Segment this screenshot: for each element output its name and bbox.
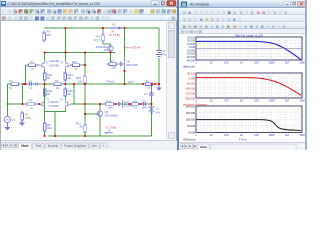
resistor R21	[129, 103, 141, 105]
plot 3 frame	[196, 106, 302, 133]
svg-text:1K: 1K	[240, 99, 243, 103]
junction (73,63)	[73, 83, 75, 85]
jfet T2	[39, 100, 44, 109]
wire R2	[21, 120, 23, 123]
svg-text:C5: C5	[142, 99, 146, 103]
svg-text:GD(v(out)): GD(v(out))	[183, 137, 196, 141]
jfet T1	[39, 61, 44, 70]
ac toolbar row4 mini icons	[181, 30, 184, 33]
ac tab nav buttons	[181, 144, 185, 149]
window left edge	[0, 0, 1, 150]
resistor R10	[70, 64, 82, 66]
mosfet V8 2SK1058	[121, 60, 125, 69]
resistor R7	[52, 83, 64, 85]
resistor R6	[44, 121, 46, 134]
resistor R23	[64, 71, 66, 83]
main toolbar rows	[0, 8, 177, 15]
ac title bar	[179, 0, 307, 8]
svg-text:50.000: 50.000	[187, 124, 195, 128]
ac page tab	[199, 144, 210, 149]
wire input	[7, 84, 39, 116]
svg-text:(5..10 B): (5..10 B)	[109, 33, 120, 37]
ac toolbar row1 icons	[181, 9, 185, 13]
svg-text:24V: 24V	[156, 110, 161, 114]
svg-text:100K: 100K	[25, 116, 31, 120]
svg-text:Q3: Q3	[104, 48, 108, 52]
junction (102,7)	[102, 27, 104, 29]
svg-text:100K: 100K	[269, 133, 275, 137]
svg-text:1K: 1K	[240, 61, 243, 65]
junction (21.5,83)	[22, 103, 24, 105]
svg-text:V3: V3	[112, 23, 116, 27]
svg-text:R21: R21	[133, 99, 139, 103]
ac toolbar row3 icons	[181, 23, 185, 27]
junction (43.6,115)	[44, 135, 46, 137]
resistor R2	[21, 111, 23, 123]
junction (84,63)	[84, 83, 86, 85]
plot 2 phase curve	[196, 78, 301, 96]
junction (24.5,63)	[25, 83, 27, 85]
ground R2	[19, 123, 25, 127]
schematic canvas	[1, 21, 166, 140]
battery +V top right	[156, 51, 162, 57]
wire mirror column	[64, 28, 66, 53]
plot area	[179, 34, 306, 142]
svg-text:100.000: 100.000	[186, 118, 196, 122]
svg-text:330: 330	[47, 126, 52, 130]
svg-text:Pout1: Pout1	[107, 80, 115, 84]
junction (84,115)	[84, 135, 86, 137]
resistor R20	[44, 71, 46, 83]
svg-text:V9: V9	[107, 129, 111, 133]
junction (23,63)	[23, 83, 25, 85]
svg-text:V1: V1	[12, 118, 16, 122]
junction (64.4,63)	[65, 83, 67, 85]
plot 2 grid	[196, 73, 302, 98]
main tab nav buttons	[2, 143, 6, 148]
svg-text:47: 47	[31, 67, 34, 71]
ground right	[158, 84, 160, 88]
svg-text:68: 68	[68, 76, 72, 80]
junction (128.5,83)	[129, 103, 131, 105]
svg-text:1M: 1M	[285, 61, 289, 65]
resistor R13	[84, 74, 86, 86]
svg-text:330: 330	[47, 33, 52, 37]
wire mid out bus	[7, 83, 159, 85]
svg-text:T4: T4	[60, 99, 63, 102]
capacitor C2	[35, 83, 40, 85]
svg-text:Main: Main	[200, 145, 207, 149]
svg-text:47: 47	[31, 106, 34, 110]
junction (99,83)	[99, 103, 101, 105]
svg-text:1: 1	[195, 61, 197, 65]
junction (123.5,50)	[124, 70, 126, 72]
wire R13 top	[84, 53, 86, 77]
wire R14 to Q3	[103, 44, 111, 46]
current arrow on rail	[110, 27, 120, 29]
junction (123.5,63)	[124, 83, 126, 85]
junction (109.5,31.5)	[110, 52, 112, 54]
svg-text:1K: 1K	[56, 86, 60, 90]
main page tabs	[19, 143, 32, 149]
junction (43.6,31.5)	[44, 52, 46, 54]
wire pair1 gates	[26, 65, 86, 84]
svg-text:2SC2800C: 2SC2800C	[105, 113, 119, 117]
resistor R11	[84, 123, 86, 135]
svg-text:AC Analysis: AC Analysis	[190, 3, 209, 7]
resistor R8	[25, 103, 38, 105]
svg-text:100: 100	[112, 66, 117, 70]
ac toolbar row2 icons	[181, 16, 185, 20]
svg-text:a56: a56	[108, 106, 113, 110]
wire first stage bus	[44, 52, 115, 54]
svg-text:ph(v(out)) (Degrees): ph(v(out)) (Degrees)	[183, 103, 207, 107]
svg-text:-90.000: -90.000	[186, 81, 195, 85]
main toolbar row2 icons	[2, 16, 6, 20]
svg-text:100: 100	[224, 61, 229, 65]
wire top +V rail	[44, 27, 159, 29]
ac tab strip	[211, 144, 297, 149]
junction (43.6,63)	[44, 83, 46, 85]
plot 3 grid	[196, 106, 302, 133]
source V9	[105, 132, 114, 134]
svg-text:55w-Fet_benal_v1.CIR: 55w-Fet_benal_v1.CIR	[235, 34, 263, 37]
svg-text:OUT: OUT	[128, 80, 134, 84]
wire pair1 drains	[45, 53, 66, 74]
junction (84,31.5)	[84, 52, 86, 54]
svg-text:C:\MC11\DATA\Rybon\55w-Fet_ben: C:\MC11\DATA\Rybon\55w-Fet_benal\55w-Fet…	[8, 2, 101, 6]
svg-text:10: 10	[210, 133, 213, 137]
wire R6 column	[44, 84, 46, 136]
wire right rail upper	[158, 28, 160, 50]
svg-text:13k: 13k	[77, 79, 82, 83]
window buttons	[152, 1, 159, 6]
junction (54,115)	[54, 135, 56, 137]
svg-text:LSK489: LSK489	[49, 63, 59, 67]
mosfet V10 2SJ162	[119, 100, 123, 108]
svg-text:68: 68	[47, 92, 51, 96]
wire Q3 emitter	[109, 51, 121, 64]
wire input bus	[6, 103, 39, 105]
resistor R4	[9, 83, 22, 85]
svg-text:T3: T3	[60, 62, 63, 65]
main title bar	[0, 0, 177, 7]
svg-text:-270.000: -270.000	[185, 91, 196, 95]
schematic vertical scrollbar	[166, 21, 176, 140]
svg-text:100K: 100K	[269, 61, 275, 65]
wire lower bus	[74, 103, 152, 105]
ac window buttons	[284, 1, 290, 6]
svg-text:10: 10	[134, 106, 138, 110]
svg-text:Vbe=+293.4m: Vbe=+293.4m	[124, 46, 142, 50]
transistor Q3	[108, 46, 114, 52]
svg-text:4p: 4p	[30, 86, 33, 90]
svg-text:2SK1058: 2SK1058	[126, 63, 138, 67]
svg-text:68: 68	[68, 92, 72, 96]
svg-text:C3: C3	[144, 92, 148, 96]
ac window icon	[181, 2, 187, 7]
svg-text:321.5: 321.5	[94, 38, 101, 42]
svg-text:100: 100	[224, 99, 229, 103]
junction (158,63)	[158, 83, 160, 85]
svg-text:R10: R10	[72, 60, 78, 64]
svg-text:R3: R3	[30, 60, 34, 64]
junction (114.5,83)	[115, 103, 117, 105]
svg-text:10K: 10K	[254, 133, 259, 137]
ac toolbar rows	[179, 8, 307, 15]
svg-text:Main: Main	[21, 144, 28, 148]
svg-text:R8: R8	[29, 98, 33, 102]
junction (84,44)	[84, 64, 86, 66]
svg-text:-40.000: -40.000	[186, 58, 195, 62]
resistor R3	[26, 64, 38, 66]
plot 1 grid	[196, 37, 302, 60]
jfet T3	[65, 61, 70, 70]
ac bottom tab bar	[179, 142, 307, 150]
resistor R5	[43, 31, 45, 43]
resistor R14 (selected)	[102, 28, 104, 44]
junction (154,63)	[154, 83, 156, 85]
source V1	[4, 116, 10, 122]
svg-text:0.000: 0.000	[189, 76, 196, 80]
transistor Q2	[97, 111, 103, 117]
svg-text:10K: 10K	[254, 99, 259, 103]
svg-text:1K: 1K	[240, 133, 243, 137]
svg-text:Text: Text	[35, 144, 41, 148]
main bottom tab bar	[0, 140, 177, 150]
resistor R24	[44, 87, 46, 99]
svg-text:1: 1	[195, 99, 197, 103]
junction (84,93)	[84, 113, 86, 115]
junction (38.4,83)	[39, 103, 41, 105]
svg-text:10: 10	[210, 61, 213, 65]
resistor R17	[107, 63, 119, 65]
wire pair2	[38, 84, 74, 136]
junction (64.4,31.5)	[65, 52, 67, 54]
resistor RL	[143, 83, 155, 85]
wire bottom rail	[48, 135, 152, 137]
main toolbar row1 icons	[2, 9, 6, 13]
plot 2 frame	[196, 73, 302, 98]
plot 1 gain curve	[196, 41, 301, 59]
svg-text:dB(v(out)): dB(v(out))	[183, 65, 195, 69]
plot 1 frame	[196, 37, 302, 60]
svg-text:C1: C1	[29, 79, 33, 83]
junction (150.5,83)	[151, 103, 153, 105]
svg-text:Models: Models	[48, 144, 59, 148]
svg-text:F (Hz): F (Hz)	[239, 137, 247, 141]
wire right rail to out bus	[158, 58, 160, 84]
svg-text:150.000: 150.000	[186, 111, 196, 115]
svg-text:R17: R17	[110, 60, 116, 64]
svg-text:10: 10	[210, 99, 213, 103]
svg-text:RL: RL	[146, 79, 150, 83]
svg-text:3K: 3K	[9, 86, 12, 90]
battery V6 lower	[149, 107, 155, 113]
svg-text:68: 68	[47, 76, 51, 80]
svg-text:LSK489: LSK489	[49, 104, 59, 108]
svg-text:R4: R4	[9, 79, 13, 83]
svg-text:8: 8	[149, 86, 151, 90]
junction (142,63)	[142, 83, 144, 85]
junction (139.5,83)	[140, 103, 142, 105]
svg-text:1M: 1M	[285, 133, 289, 137]
ac right border	[305, 0, 307, 150]
capacitor C5	[141, 103, 149, 105]
plot 3 group delay curve	[196, 120, 301, 131]
resistor R18	[103, 103, 116, 105]
svg-text:Info: Info	[92, 144, 98, 148]
svg-text:R7: R7	[55, 79, 59, 83]
capacitor C1	[27, 83, 35, 85]
svg-text:47: 47	[74, 67, 78, 71]
svg-text:100K: 100K	[269, 99, 275, 103]
junction (150.5,63)	[151, 83, 153, 85]
svg-text:1: 1	[195, 133, 197, 137]
capacitor C3 right	[151, 89, 153, 99]
svg-text:1M: 1M	[285, 99, 289, 103]
svg-text:100: 100	[224, 133, 229, 137]
wire Q2	[85, 84, 100, 136]
wire lower right column	[151, 84, 153, 136]
app icon	[1, 1, 6, 6]
resistor R25	[64, 87, 66, 99]
wire R11 bottom	[84, 132, 86, 136]
svg-text:Power Supplies: Power Supplies	[64, 144, 87, 148]
svg-text:a4n: a4n	[142, 106, 147, 110]
junction (123.5,7)	[124, 27, 126, 29]
svg-text:-180.000: -180.000	[185, 86, 196, 90]
svg-text:+: +	[103, 144, 105, 148]
jfet T4	[65, 100, 70, 109]
svg-text:10K: 10K	[254, 61, 259, 65]
plot 1 zero axis	[196, 47, 302, 49]
svg-text:90.000: 90.000	[187, 71, 195, 75]
svg-text:R18: R18	[107, 99, 113, 103]
svg-text:1k: 1k	[80, 125, 84, 129]
svg-text:-360.000: -360.000	[185, 96, 196, 100]
ground V1	[6, 123, 8, 127]
junction (64.4,7)	[65, 27, 67, 29]
junction (84,83)	[84, 103, 86, 105]
wire v8 drain/source	[124, 28, 126, 84]
